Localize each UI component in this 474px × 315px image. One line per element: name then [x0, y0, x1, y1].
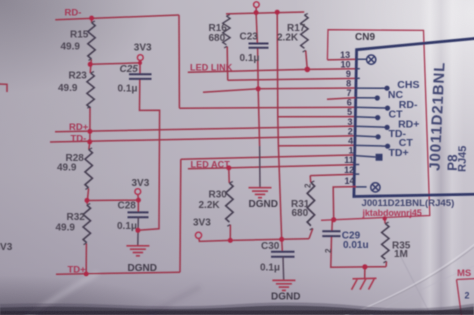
- junction dots center: [226, 10, 310, 243]
- connector J0011D21BNL body box: [354, 38, 474, 196]
- power 3V3 at C28: [135, 189, 141, 195]
- wire pin 5 line: [278, 116, 356, 118]
- paper crease curve bottom right: [337, 243, 474, 315]
- resistor R30: [226, 182, 233, 227]
- wire DGND stem center: [259, 146, 261, 188]
- wire R31 top stub: [309, 176, 312, 183]
- wire pin 12 line: [310, 174, 356, 175]
- wire RD- net top: [55, 15, 179, 20]
- junction dots left: [84, 16, 142, 277]
- wire C28 to DGND stem: [137, 217, 140, 245]
- capacitor C28: [128, 212, 149, 217]
- resistor R16: [223, 15, 230, 48]
- wire pin 14 line: [333, 187, 356, 220]
- wire R17 stub: [306, 51, 308, 70]
- wire R35 top stub: [384, 218, 386, 223]
- wire 3V3 stub at C25: [139, 61, 141, 75]
- wire 3V3 top rail: [226, 12, 304, 14]
- wire C23 top stub: [256, 13, 257, 44]
- fragment red box bottom right: [457, 279, 474, 315]
- wire LED ACT / pin 11 line: [188, 165, 356, 169]
- wire pin 7 NC stub: [327, 98, 356, 100]
- wire 3V3 bottom rail: [199, 238, 309, 241]
- resistor R23: [87, 72, 94, 109]
- capacitor C25: [129, 74, 152, 79]
- junction dots right: [331, 216, 387, 269]
- connector pin pads dots: [375, 86, 391, 161]
- wire 3V3 center riser: [277, 12, 282, 239]
- wire RD+ line: [55, 126, 356, 132]
- wire pin 13 line: [327, 58, 356, 61]
- ground chassis symbol: [352, 278, 377, 290]
- wire C30 top stub: [281, 239, 284, 251]
- wire termination chain vertical: [86, 18, 91, 274]
- resistor R28: [85, 148, 92, 189]
- wire center tap to C25: [90, 63, 140, 64]
- wire 3V3 stub at C28: [137, 195, 140, 213]
- wire pin 8 line: [203, 88, 356, 92]
- fragment left edge wire: [0, 84, 7, 92]
- wire RD- riser: [178, 15, 180, 108]
- wire RD- to pin 6: [179, 107, 356, 108]
- wire R16 stub down: [226, 47, 229, 81]
- ground DGND under C28: [126, 246, 149, 256]
- wire R30 bottom stub: [229, 225, 231, 241]
- resistor R32: [83, 204, 90, 245]
- connector CN9 outline box: [321, 30, 430, 221]
- power 3V3 terminal top: [255, 7, 257, 12]
- photo dark bottom edge: [0, 302, 474, 315]
- wire TD+ line: [56, 272, 180, 274]
- power 3V3 at R30: [195, 232, 201, 238]
- lamp symbol pin 13: [367, 55, 376, 64]
- wire chassis stub: [364, 267, 366, 278]
- resistor R17: [301, 14, 308, 52]
- capacitor C29: [322, 231, 340, 236]
- lamp symbol pin 14: [371, 183, 380, 192]
- wire TD+ riser: [179, 159, 182, 272]
- wire TD- line: [50, 136, 356, 142]
- wire pin 4 line: [278, 144, 356, 147]
- wire C23 bottom to pin8 junction: [258, 48, 260, 146]
- connector signal names: [388, 79, 420, 159]
- ground DGND under C30: [272, 280, 295, 290]
- wire C30 to DGND stem: [282, 257, 285, 281]
- wire center tap to C28: [87, 199, 138, 201]
- connector internal stubs and pads: [355, 59, 386, 187]
- wire C29 top stub: [331, 220, 333, 231]
- connector pin numbers: [340, 50, 354, 186]
- wire LED LINK / pin 10 line: [188, 69, 356, 72]
- wire R31 bottom hook: [309, 229, 313, 239]
- wire TD+ to pin 1: [181, 155, 356, 159]
- wire R35 bottom stub: [385, 261, 387, 266]
- power 3V3 at C25: [137, 55, 143, 61]
- wire R30 stub: [228, 168, 230, 183]
- capacitor C30: [271, 252, 295, 257]
- power 3V3 terminal circle top: [254, 2, 260, 8]
- wire C25 bottom to ground chain: [138, 79, 160, 230]
- wire pin 9 line: [228, 78, 356, 80]
- paper wrinkle streaks bottom left: [28, 274, 198, 315]
- resistor R31: [307, 181, 314, 230]
- ground DGND center: [249, 188, 272, 198]
- capacitor C23: [249, 44, 269, 48]
- resistor R35: [382, 222, 389, 263]
- wire C29 bottom to chassis: [331, 236, 386, 267]
- resistor R15: [88, 21, 95, 60]
